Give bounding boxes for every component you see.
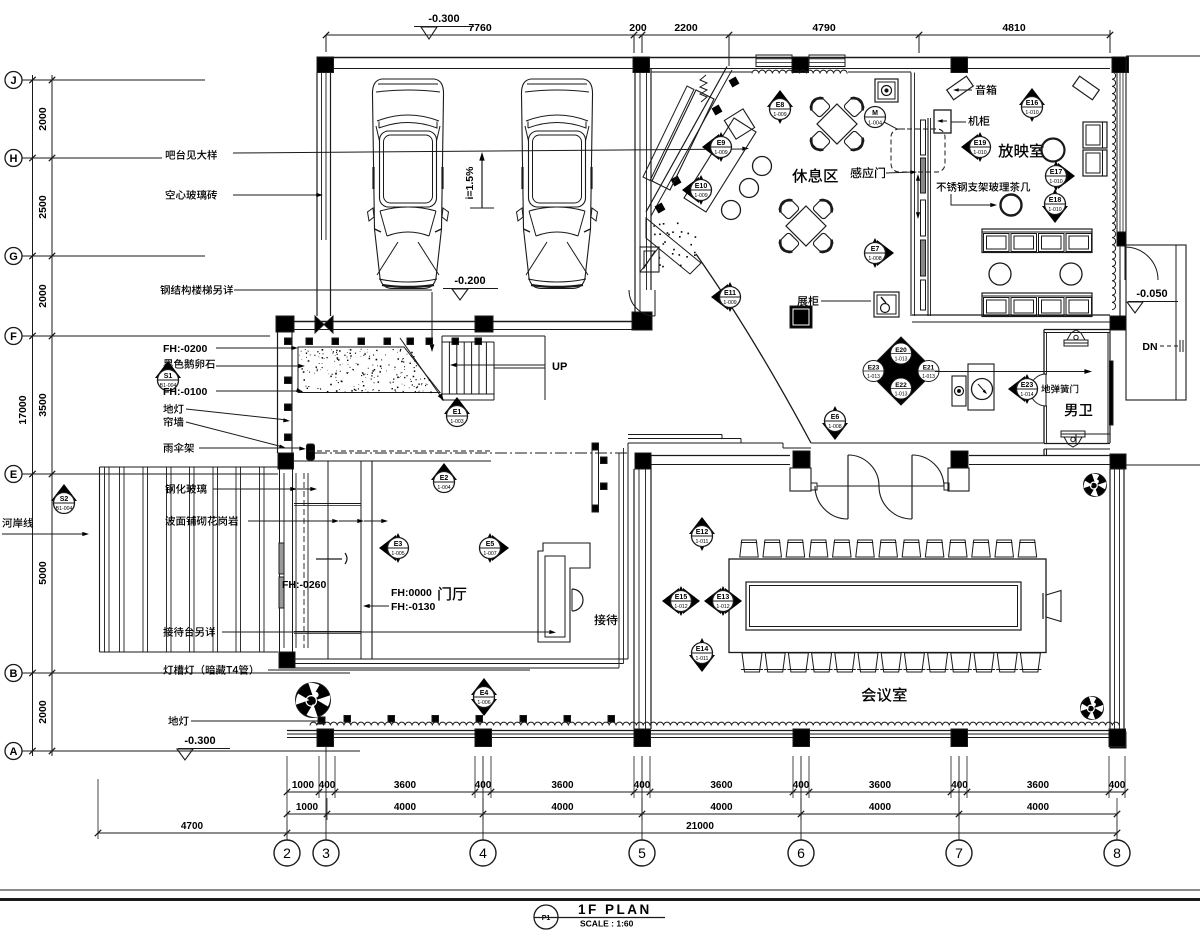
svg-text:S2: S2 (60, 496, 69, 503)
svg-text:2000: 2000 (37, 700, 49, 724)
dot a (601, 457, 608, 464)
marker E11 (711, 284, 728, 310)
svg-text:1-005: 1-005 (391, 551, 404, 557)
svg-text:-0.300: -0.300 (428, 13, 459, 25)
wall spots (729, 77, 740, 88)
svg-text:5000: 5000 (37, 561, 49, 585)
svg-text:4: 4 (479, 845, 487, 861)
svg-text:1-007: 1-007 (483, 551, 496, 557)
left dim tick Fb (49, 333, 55, 339)
outdoor steps treads (104, 467, 106, 652)
toilet right wall (1107, 332, 1109, 443)
column bottom-5 (951, 729, 968, 747)
top wall inner face (651, 71, 752, 73)
stair treads (448, 342, 450, 394)
meeting label 会议室 (862, 687, 907, 702)
bar return table (684, 118, 756, 212)
svg-text:E12: E12 (696, 529, 709, 536)
west wall ticks (285, 338, 292, 345)
grid bubble J (5, 72, 22, 89)
marker E17 (1058, 163, 1075, 189)
svg-text:E22: E22 (895, 382, 907, 389)
svg-text:B: B (10, 668, 18, 680)
stair upper flight line (494, 367, 545, 369)
column top-3 (792, 57, 809, 73)
display cabinet box (874, 292, 899, 317)
left dim tick Hb (49, 155, 55, 161)
pebble strip 黑色鹅卵石 area (298, 347, 440, 393)
column meeting NW (635, 453, 651, 469)
marker E13 (704, 588, 721, 614)
lectern (1046, 591, 1061, 622)
west door panels (279, 543, 284, 574)
svg-text:E1: E1 (453, 409, 462, 416)
column B-left (279, 652, 295, 668)
svg-text:1-011: 1-011 (696, 656, 709, 662)
riverbank arrow (2, 533, 86, 535)
svg-text:1-004: 1-004 (868, 121, 882, 127)
svg-text:1-008: 1-008 (868, 256, 881, 262)
left dimension line b (51, 75, 53, 756)
stair arrow (431, 292, 433, 348)
svg-text:1F PLAN: 1F PLAN (578, 902, 652, 917)
vanity counter (968, 364, 994, 410)
grid bubble H (5, 150, 22, 167)
svg-text:2200: 2200 (674, 22, 698, 34)
bottom dim row2 line (287, 813, 1117, 815)
mirror (1110, 361, 1114, 425)
svg-text:E2: E2 (440, 475, 449, 482)
column top-5 (1112, 57, 1129, 73)
plant SE meeting (1081, 697, 1104, 720)
display cabinet dark (790, 306, 812, 328)
left dim tick Ab (49, 748, 55, 754)
entry mat square (640, 247, 659, 272)
proj circle table (1042, 139, 1065, 162)
label 波面铺砌花岗岩 (165, 516, 238, 526)
zigzag glass (700, 75, 707, 102)
svg-text:FH:0000: FH:0000 (391, 587, 432, 599)
diagonal wall (646, 67, 727, 213)
side table circle 2 (1060, 263, 1082, 285)
terrace edge lines (294, 658, 628, 660)
svg-text:E13: E13 (717, 594, 730, 601)
svg-text:1-003: 1-003 (450, 419, 463, 425)
svg-text:E4: E4 (480, 690, 489, 697)
paper holder (952, 376, 966, 406)
svg-text:M: M (872, 110, 878, 117)
top wall inner line (333, 68, 1110, 70)
svg-text:1-011: 1-011 (696, 539, 709, 545)
separator thin (0, 889, 1200, 891)
svg-text:E6: E6 (831, 414, 840, 421)
toilet left wall (1043, 330, 1045, 375)
svg-text:4000: 4000 (551, 802, 574, 813)
column meeting SE (1110, 732, 1126, 748)
wall-mounted lights row (306, 338, 313, 345)
svg-text:4000: 4000 (1027, 802, 1050, 813)
svg-text:E23: E23 (1021, 382, 1034, 389)
svg-text:FH:-0200: FH:-0200 (163, 343, 208, 355)
marker E7 (877, 240, 894, 266)
marker E2 (431, 463, 457, 480)
column meeting NE (1110, 454, 1126, 469)
projection label 放映室 (998, 143, 1043, 158)
label 机柜 (951, 121, 966, 123)
grid line F (22, 335, 270, 337)
bottom dim row1 ticks (284, 789, 290, 795)
bottom dim row2 ticks (284, 811, 290, 817)
svg-text:5: 5 (638, 845, 646, 861)
svg-text:1000: 1000 (292, 780, 315, 791)
svg-text:400: 400 (1109, 780, 1126, 791)
door post R (951, 451, 968, 468)
grid line B (22, 672, 350, 674)
top dim tick 1110 (1107, 32, 1113, 38)
svg-text:FH:-0260: FH:-0260 (282, 579, 327, 591)
conference chairs bottom (742, 653, 762, 672)
svg-text:S1: S1 (164, 373, 173, 380)
grid line G (22, 255, 205, 257)
svg-text:1-013: 1-013 (895, 357, 908, 363)
grid bubble F (5, 328, 22, 345)
riverbank label 河岸线 (2, 518, 33, 528)
svg-text:1-013: 1-013 (867, 374, 880, 380)
curved wall (696, 254, 811, 443)
door leaf 1 (847, 455, 849, 519)
door leaf 2 (911, 455, 913, 519)
marker E16 (1019, 88, 1045, 105)
speaker L (947, 76, 974, 100)
svg-text:1-009: 1-009 (714, 150, 727, 156)
svg-text:3600: 3600 (551, 780, 574, 791)
label 不锈钢支架玻理茶几 (936, 182, 1030, 192)
svg-text:J: J (10, 75, 16, 87)
svg-text:4000: 4000 (394, 802, 417, 813)
title line (534, 917, 665, 919)
label 帘墙 (164, 417, 184, 427)
column E-left (278, 453, 294, 469)
bar counter (652, 90, 714, 190)
sliding door panels (921, 120, 926, 155)
column bottom-2 (475, 729, 492, 747)
grid line E (22, 473, 278, 475)
svg-text:4790: 4790 (812, 22, 836, 34)
svg-text:1-009: 1-009 (723, 300, 736, 306)
top dimension line (326, 34, 1110, 36)
meeting top wall right (969, 455, 1110, 457)
label 空心玻璃砖 (166, 190, 217, 200)
svg-text:E20: E20 (895, 347, 907, 354)
svg-text:E14: E14 (696, 646, 709, 653)
svg-text:H: H (10, 153, 18, 165)
svg-text:SCALE : 1:60: SCALE : 1:60 (580, 919, 634, 929)
stair door arc (1125, 247, 1158, 280)
column garage-SE (632, 312, 652, 330)
svg-text:E7: E7 (871, 246, 880, 253)
colonnade wall lines (287, 730, 1126, 732)
left dim tick Ba (29, 670, 35, 676)
side table circle 1 (989, 263, 1011, 285)
sliding wall lines (910, 73, 912, 317)
reception label 接待 (594, 614, 617, 625)
svg-text:A: A (10, 746, 18, 758)
bubble stems (286, 820, 288, 840)
stool 1 (753, 157, 772, 176)
porch lines h (294, 460, 372, 462)
svg-text:E3: E3 (394, 541, 403, 548)
bar side square (724, 109, 754, 139)
mezzanine dash line (309, 450, 491, 452)
column top-2 (633, 57, 650, 73)
svg-text:1-013: 1-013 (895, 392, 908, 398)
bottom dim row1 line (287, 791, 1126, 793)
marker E3 (379, 535, 396, 561)
top dim tick 642 (639, 32, 645, 38)
meeting right wall (1109, 469, 1111, 732)
toilet bottom wall (1044, 443, 1110, 445)
top dim ext lines (325, 35, 327, 52)
label 地弹簧门 (1041, 384, 1078, 393)
svg-text:4000: 4000 (710, 802, 733, 813)
svg-text:E19: E19 (974, 140, 987, 147)
canopy steps to meeting door (628, 434, 722, 436)
svg-text:FH:-0100: FH:-0100 (163, 386, 208, 398)
label 地灯 upper (163, 404, 183, 414)
conference table (729, 559, 1046, 653)
column F-left (276, 316, 294, 332)
server rack 机柜 (934, 110, 951, 133)
grid E ext right (1124, 464, 1200, 466)
stool 2 (740, 179, 759, 198)
marker S2 (51, 484, 77, 501)
svg-text:2500: 2500 (37, 195, 49, 219)
window stripes 2 (809, 55, 845, 67)
svg-text:1-009: 1-009 (694, 193, 707, 199)
svg-text:4700: 4700 (181, 821, 204, 832)
svg-text:DN: DN (1142, 341, 1157, 353)
grid line A (22, 750, 360, 752)
grid bubble B (5, 665, 22, 682)
title circle P1 (534, 905, 558, 929)
svg-text:8: 8 (1113, 845, 1121, 861)
door post L (793, 451, 810, 468)
urinal top (1064, 340, 1088, 346)
left dim tick Ha (29, 155, 35, 161)
svg-text:1-006: 1-006 (477, 700, 490, 706)
svg-text:G: G (9, 251, 18, 263)
stair door jamb (1119, 246, 1121, 280)
car 1 (372, 79, 443, 289)
svg-text:4810: 4810 (1002, 22, 1026, 34)
label 接待台另详 (163, 627, 215, 637)
dot b (601, 483, 608, 490)
label 钢结构楼梯另详 (160, 285, 233, 295)
top dim tick 326 (323, 32, 329, 38)
svg-text:i=1.5%: i=1.5% (464, 166, 476, 200)
grid line J (22, 79, 205, 81)
garage left glass-block wall (316, 73, 318, 317)
column bottom-6 (1109, 729, 1126, 747)
left dim tick Ea (29, 471, 35, 477)
svg-text:3600: 3600 (869, 780, 892, 791)
block proj SE (1110, 316, 1126, 330)
svg-text:200: 200 (629, 22, 647, 34)
bottom dim row3 line (98, 832, 1117, 834)
marker E9 (702, 134, 719, 160)
svg-text:3500: 3500 (37, 393, 49, 417)
svg-text:E10: E10 (695, 183, 708, 190)
svg-text:3600: 3600 (1027, 780, 1050, 791)
label 钢化玻璃 (165, 484, 206, 494)
zigzag east wall (1112, 72, 1116, 310)
left dim tick Bb (49, 670, 55, 676)
label 展柜 (797, 296, 818, 306)
slope arrow i=1.5% (481, 157, 483, 208)
marker E10 (682, 177, 699, 203)
left dimension line a (32, 75, 34, 756)
swing door 地弹簧门 (1030, 374, 1046, 406)
west door slide dash (303, 473, 305, 648)
foyer label 门厅 (438, 587, 466, 601)
marker E12 (689, 517, 715, 534)
hatched entrance band (646, 218, 701, 274)
svg-text:E17: E17 (1050, 169, 1063, 176)
svg-text:E16: E16 (1026, 100, 1039, 107)
column bubbles (274, 840, 300, 866)
svg-text:6: 6 (797, 845, 805, 861)
svg-text:1-004: 1-004 (437, 485, 450, 491)
svg-text:UP: UP (552, 361, 567, 373)
separator thick (0, 898, 1200, 901)
svg-text:B1-004: B1-004 (56, 506, 73, 512)
svg-text:-0.300: -0.300 (184, 735, 215, 747)
stair hall rect (1126, 245, 1186, 400)
terrace light squares (344, 716, 351, 723)
label 感应门 (850, 167, 885, 178)
top dim tick 919 (916, 32, 922, 38)
west door band (279, 469, 281, 652)
speaker R (1073, 76, 1100, 100)
svg-text:3600: 3600 (394, 780, 417, 791)
svg-text:21000: 21000 (686, 821, 714, 832)
left dim tick Ga (29, 253, 35, 259)
left dim tick Ja (29, 77, 35, 83)
marker E15 (662, 588, 679, 614)
svg-text:2000: 2000 (37, 284, 49, 308)
svg-text:1000: 1000 (296, 802, 319, 813)
top dim tick 729 (726, 32, 732, 38)
corridor bottom line (811, 442, 1044, 444)
label 黑色鹅卵石 (164, 359, 215, 369)
marker E23-014 (1008, 376, 1025, 402)
east window end block (1117, 232, 1126, 246)
marker E5 (492, 535, 509, 561)
top wall ext right (1126, 55, 1200, 57)
projection bottom wall (912, 314, 1110, 316)
left dim tick Jb (49, 77, 55, 83)
stair label line UP (452, 364, 545, 366)
svg-text:E23: E23 (868, 365, 880, 372)
svg-text:3600: 3600 (710, 780, 733, 791)
svg-text:400: 400 (319, 780, 336, 791)
marker E18 (1042, 206, 1068, 223)
garage right wall (634, 73, 636, 313)
toilet wall stub (1043, 449, 1045, 456)
column F-mid (475, 316, 493, 332)
svg-text:7: 7 (955, 845, 963, 861)
conference chairs top (740, 540, 759, 557)
svg-text:1-013: 1-013 (922, 374, 935, 380)
marker M (865, 107, 886, 128)
plant SW terrace (296, 683, 331, 718)
svg-text:E8: E8 (776, 102, 785, 109)
door leaf symbol (316, 553, 347, 564)
meeting top wall left (651, 455, 790, 457)
colonnade wavy (310, 722, 1119, 725)
grid line H (22, 157, 162, 159)
garage SE door arc (629, 290, 655, 316)
svg-text:2000: 2000 (37, 107, 49, 131)
canopy dash-dot (315, 452, 630, 454)
label 吧台见大样 (166, 150, 217, 160)
svg-text:F: F (10, 331, 17, 343)
meeting left wall (633, 469, 635, 729)
east window band (1116, 72, 1118, 232)
svg-text:-0.050: -0.050 (1136, 288, 1167, 300)
svg-text:3: 3 (322, 845, 330, 861)
svg-text:4000: 4000 (869, 802, 892, 813)
svg-text:E9: E9 (717, 140, 726, 147)
label 雨伞架 (164, 443, 195, 453)
porch lines v (327, 461, 329, 659)
rest area label 休息区 (792, 168, 838, 183)
svg-text:P1: P1 (542, 915, 551, 922)
urinal bottom (1061, 431, 1085, 437)
column bottom-1 (317, 729, 334, 747)
stool 3 (722, 201, 741, 220)
svg-text:1-010: 1-010 (1025, 110, 1038, 116)
svg-text:1-009: 1-009 (773, 112, 786, 118)
svg-text:1-014: 1-014 (1020, 392, 1033, 398)
svg-text:1-012: 1-012 (716, 604, 729, 610)
svg-text:7760: 7760 (468, 22, 492, 34)
umbrella stand (307, 444, 315, 460)
thin window (592, 443, 599, 512)
car 2 (521, 79, 592, 289)
grid bubble G (5, 248, 22, 265)
svg-text:E18: E18 (1049, 197, 1062, 204)
grid bubble E (5, 466, 22, 483)
label 地灯 lower (168, 716, 188, 726)
column bottom-3 (634, 729, 651, 747)
svg-text:17000: 17000 (17, 395, 29, 424)
marker E6 (822, 423, 848, 440)
marker E4 (471, 699, 497, 716)
svg-text:E5: E5 (486, 541, 495, 548)
left dim tick Fa (29, 333, 35, 339)
column bottom-4 (793, 729, 810, 747)
svg-text:-0.200: -0.200 (454, 275, 485, 287)
marker E14 (689, 655, 715, 672)
cinema sofa row 2 (982, 293, 1092, 317)
rest area table 1 (817, 104, 857, 144)
svg-text:1-010: 1-010 (973, 150, 986, 156)
cinema sofa row 1 (982, 229, 1092, 253)
svg-text:E21: E21 (923, 365, 935, 372)
marker S1 (155, 361, 181, 378)
svg-text:E15: E15 (675, 594, 688, 601)
